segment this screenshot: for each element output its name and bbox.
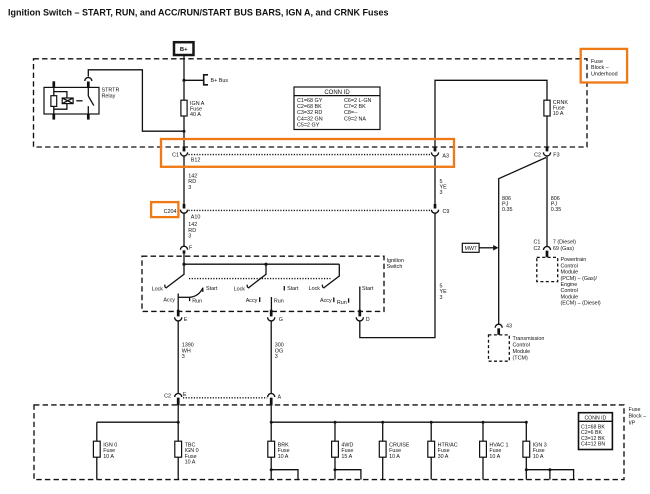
svg-text:C1: C1 — [172, 153, 179, 159]
svg-text:69 (Gas): 69 (Gas) — [553, 246, 574, 252]
svg-text:C204: C204 — [164, 209, 177, 215]
svg-text:Start: Start — [362, 286, 374, 292]
svg-text:30 A: 30 A — [438, 454, 449, 460]
svg-text:B+: B+ — [180, 47, 188, 53]
svg-text:MW7: MW7 — [465, 246, 477, 252]
svg-text:Lock: Lock — [152, 286, 164, 292]
svg-text:(TCM): (TCM) — [513, 356, 528, 362]
svg-text:Fuse: Fuse — [629, 407, 641, 413]
svg-text:10 A: 10 A — [278, 454, 289, 460]
svg-text:Ignition Switch – START, RUN,: Ignition Switch – START, RUN, and ACC/RU… — [8, 8, 389, 18]
svg-text:10 A: 10 A — [185, 459, 196, 465]
svg-text:C2: C2 — [164, 394, 171, 400]
svg-text:G: G — [279, 317, 283, 323]
svg-text:Accy: Accy — [246, 298, 258, 304]
svg-text:Block –: Block – — [629, 414, 647, 420]
svg-text:C8=--: C8=-- — [344, 110, 358, 116]
svg-text:Lock: Lock — [309, 286, 321, 292]
svg-text:10 A: 10 A — [389, 454, 400, 460]
svg-text:Accy: Accy — [320, 298, 332, 304]
svg-text:0.35: 0.35 — [551, 207, 562, 213]
svg-text:Relay: Relay — [102, 94, 116, 100]
svg-text:3: 3 — [182, 354, 185, 360]
svg-text:C9=2 NA: C9=2 NA — [344, 116, 366, 122]
svg-text:15 A: 15 A — [341, 454, 352, 460]
svg-text:CONN ID: CONN ID — [584, 416, 606, 422]
svg-text:10 A: 10 A — [489, 454, 500, 460]
svg-text:40 A: 40 A — [190, 112, 201, 118]
svg-text:C4=32 GN: C4=32 GN — [297, 116, 323, 122]
svg-text:Module: Module — [513, 349, 531, 355]
svg-text:0.35: 0.35 — [502, 207, 513, 213]
svg-text:C2: C2 — [534, 246, 541, 252]
svg-text:10 A: 10 A — [103, 454, 114, 460]
svg-text:STRTR: STRTR — [102, 87, 120, 93]
svg-text:A3: A3 — [442, 154, 449, 160]
svg-text:3: 3 — [440, 295, 443, 301]
svg-text:C5=2 GY: C5=2 GY — [297, 122, 320, 128]
svg-text:Start: Start — [287, 286, 299, 292]
svg-text:I/P: I/P — [629, 421, 636, 427]
svg-text:Powertrain: Powertrain — [561, 257, 587, 263]
svg-text:Underhood: Underhood — [591, 72, 618, 78]
svg-text:C7=2 BK: C7=2 BK — [344, 104, 366, 110]
svg-text:Ignition: Ignition — [387, 258, 404, 264]
svg-text:10 A: 10 A — [553, 111, 564, 117]
svg-text:Lock: Lock — [234, 286, 246, 292]
svg-text:10 A: 10 A — [533, 454, 544, 460]
svg-text:(ECM) – (Diesel): (ECM) – (Diesel) — [561, 301, 601, 307]
svg-text:3: 3 — [440, 190, 443, 196]
svg-text:Block –: Block – — [591, 65, 609, 71]
svg-text:Run: Run — [192, 298, 202, 304]
svg-text:7 (Diesel): 7 (Diesel) — [553, 239, 576, 245]
svg-text:Engine: Engine — [561, 282, 578, 288]
svg-text:C6=2 L-GN: C6=2 L-GN — [344, 98, 372, 104]
svg-text:Accy: Accy — [163, 298, 175, 304]
svg-text:E: E — [184, 317, 188, 323]
svg-text:Run: Run — [337, 300, 347, 306]
svg-text:C2: C2 — [534, 153, 541, 159]
svg-text:Module: Module — [561, 294, 579, 300]
svg-text:Switch: Switch — [387, 264, 403, 270]
svg-text:C9: C9 — [443, 209, 450, 215]
svg-text:Start: Start — [206, 286, 218, 292]
svg-text:3: 3 — [275, 354, 278, 360]
svg-text:Control: Control — [561, 263, 578, 269]
svg-text:3: 3 — [188, 185, 191, 191]
svg-text:Transmission: Transmission — [513, 336, 545, 342]
svg-text:Control: Control — [561, 288, 578, 294]
svg-text:Fuse: Fuse — [591, 59, 603, 65]
svg-text:43: 43 — [506, 324, 512, 330]
svg-text:C1=68 GY: C1=68 GY — [297, 98, 323, 104]
svg-text:Run: Run — [274, 298, 284, 304]
svg-text:A: A — [278, 394, 282, 400]
svg-text:F3: F3 — [553, 153, 559, 159]
svg-text:D: D — [366, 317, 370, 323]
svg-text:B+ Bus: B+ Bus — [211, 78, 229, 84]
svg-text:C4=12 BN: C4=12 BN — [581, 442, 605, 448]
svg-text:CONN ID: CONN ID — [324, 90, 350, 96]
svg-text:Module: Module — [561, 270, 579, 276]
svg-text:C3=32 RD: C3=32 RD — [297, 110, 322, 116]
svg-text:3: 3 — [188, 233, 191, 239]
svg-text:C2=68 BK: C2=68 BK — [297, 104, 322, 110]
svg-text:E: E — [183, 392, 187, 398]
svg-text:(PCM) – (Gas)/: (PCM) – (Gas)/ — [561, 276, 598, 282]
svg-text:A10: A10 — [191, 215, 201, 221]
svg-text:C1: C1 — [534, 239, 541, 245]
svg-text:B12: B12 — [191, 157, 201, 163]
svg-text:Control: Control — [513, 343, 530, 349]
